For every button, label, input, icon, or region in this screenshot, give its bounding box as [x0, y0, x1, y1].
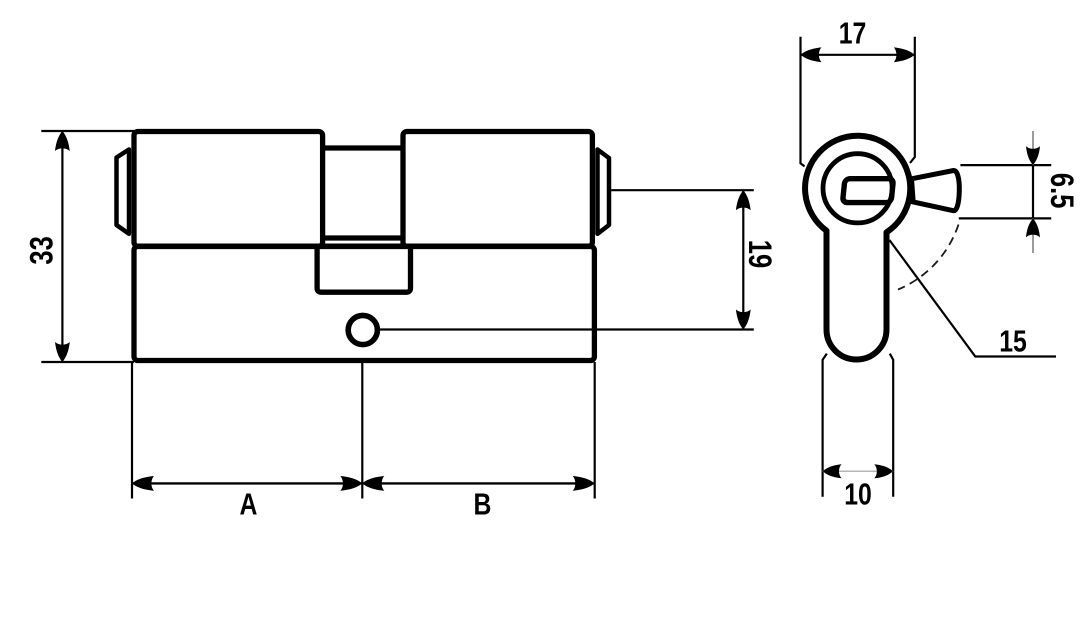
dimension 33: bottom extension line [41, 361, 134, 363]
side view: inner plug circle [823, 154, 892, 223]
dimension 19: top arrowhead [736, 190, 751, 210]
dimension 6.5: bottom leader line [959, 217, 1051, 219]
svg-text:15: 15 [999, 324, 1027, 358]
side view: body silhouette (head circle + stem) [805, 136, 910, 360]
dimension 33: bottom arrowhead [55, 342, 70, 362]
svg-text:B: B [474, 487, 492, 521]
dimension 17: left arrowhead [801, 47, 822, 62]
dimension 6.5: top arrowhead pointing down [1026, 146, 1040, 165]
dimension 6.5: upper extension of dimension line [1032, 131, 1034, 165]
label 15: leader polyline [889, 240, 1056, 357]
front view: right face tab [598, 150, 610, 234]
dimension 33: top extension line [41, 130, 134, 132]
side view: cam swing dashed arc [898, 225, 959, 290]
front view: middle bridge bottom edge [323, 235, 403, 240]
front view: lower body housing [134, 246, 594, 360]
dimension 33: vertical dimension line [61, 131, 63, 362]
dimension 10: right arrowhead [874, 464, 893, 478]
svg-text:17: 17 [839, 16, 867, 50]
dimension 17: left extension line with kink [801, 37, 805, 167]
dimension 6.5: lower extension of dimension line [1032, 218, 1034, 253]
dimension 10: left extension line with kink [823, 354, 827, 497]
dimension 19: vertical dimension line [742, 190, 744, 329]
dimension 33: top arrowhead [55, 131, 70, 151]
dimension A: dimension line [132, 482, 362, 484]
dimension B: left arrowhead at middle [362, 476, 384, 491]
side view: cam lobe [912, 170, 960, 210]
dimension A: left arrowhead [132, 476, 154, 491]
svg-text:33: 33 [25, 236, 60, 264]
dimension 17: right extension line with kink [910, 37, 915, 163]
dimension A/B: middle extension line [361, 362, 363, 499]
dimension 17: right arrowhead [894, 47, 915, 62]
svg-text:10: 10 [844, 477, 872, 511]
dimension 6.5: vertical dimension line [1032, 165, 1034, 218]
dimension A/B: right extension line [594, 362, 596, 499]
dimension 19: bottom arrowhead [736, 310, 751, 330]
front view: seam line between plugs and body [134, 244, 592, 250]
dimension 19: bottom leader line from screw hole [379, 328, 754, 330]
side view: keyway slot [843, 179, 894, 203]
dimension A: right arrowhead at middle [340, 476, 362, 491]
svg-text:A: A [240, 487, 258, 521]
dimension 10: right extension line with kink [890, 354, 893, 497]
front view: cam housing block [317, 246, 410, 292]
dimension A/B: left extension line [131, 362, 133, 499]
dimension B: right arrowhead [573, 476, 595, 491]
dimension B: dimension line [362, 482, 594, 484]
dimension 6.5: top leader line [960, 164, 1051, 166]
front view: left face tab [117, 150, 130, 234]
front view: upper-left plug rectangle [134, 132, 323, 247]
dimension 10: thin dimension line [823, 470, 894, 472]
front view: upper-right plug rectangle [403, 132, 592, 247]
front view: screw hole circle [348, 315, 377, 344]
dimension 19: top leader line [611, 189, 754, 191]
svg-text:6.5: 6.5 [1043, 173, 1078, 209]
dimension 10: left arrowhead [823, 464, 842, 478]
svg-text:19: 19 [741, 240, 776, 268]
dimension 6.5: bottom arrowhead pointing up [1026, 218, 1040, 237]
dimension 17: dimension line [801, 54, 915, 56]
front view: middle bridge top edge [323, 145, 403, 150]
